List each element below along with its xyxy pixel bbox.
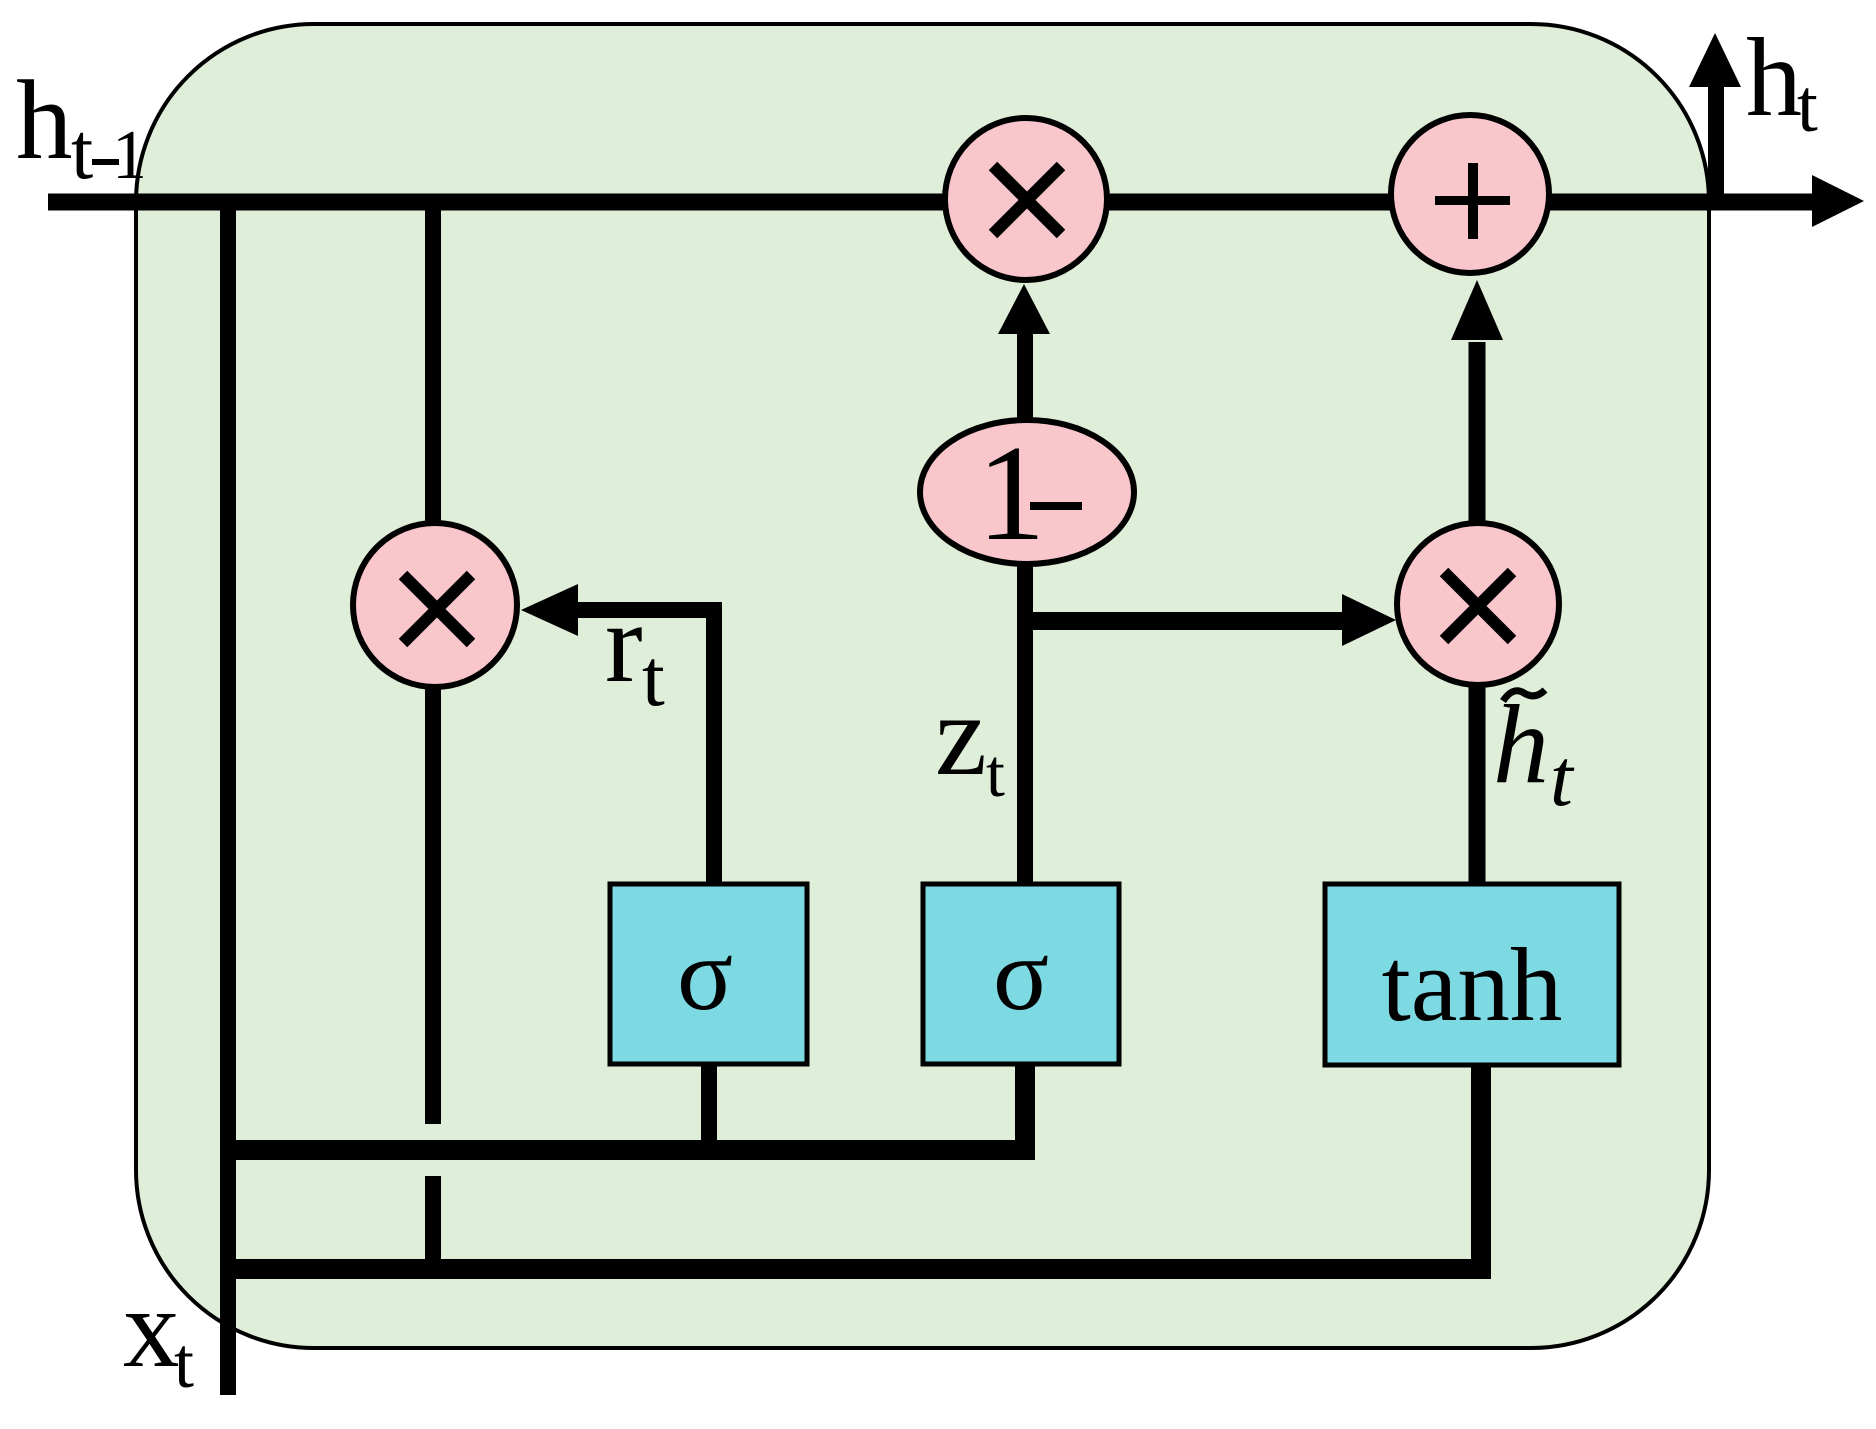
svg-text:h: h — [16, 58, 73, 183]
svg-text:t: t — [1797, 65, 1818, 148]
svg-text:t: t — [71, 108, 93, 196]
svg-text:t: t — [642, 632, 665, 723]
svg-text:t: t — [986, 735, 1005, 811]
svg-text:tanh: tanh — [1382, 926, 1563, 1043]
svg-text:1: 1 — [977, 417, 1046, 569]
svg-text:σ: σ — [993, 917, 1049, 1032]
svg-text:σ: σ — [677, 917, 733, 1032]
svg-text:t: t — [174, 1323, 194, 1403]
svg-text:z: z — [935, 671, 987, 800]
svg-text:t: t — [1550, 732, 1575, 823]
svg-text:1: 1 — [112, 117, 147, 194]
svg-text:x: x — [123, 1266, 180, 1391]
svg-text:r: r — [605, 581, 643, 706]
svg-text:h: h — [1746, 16, 1802, 140]
svg-text:h: h — [1493, 683, 1549, 807]
